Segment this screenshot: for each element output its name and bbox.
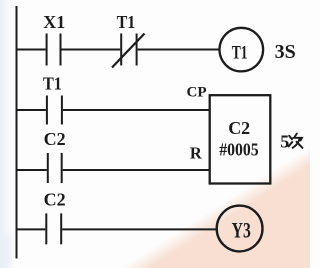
- svg-text:#0005: #0005: [219, 139, 258, 159]
- svg-text:T1: T1: [117, 12, 136, 32]
- svg-text:T1: T1: [232, 42, 248, 63]
- svg-text:T1: T1: [43, 74, 62, 94]
- svg-text:C2: C2: [228, 118, 250, 138]
- svg-text:X1: X1: [43, 12, 65, 32]
- svg-text:R: R: [190, 143, 203, 162]
- svg-text:Y3: Y3: [232, 217, 251, 242]
- svg-text:C2: C2: [44, 189, 66, 209]
- svg-text:3S: 3S: [275, 41, 296, 63]
- svg-text:CP: CP: [187, 85, 207, 101]
- svg-text:5: 5: [280, 132, 289, 152]
- svg-text:C2: C2: [44, 129, 66, 149]
